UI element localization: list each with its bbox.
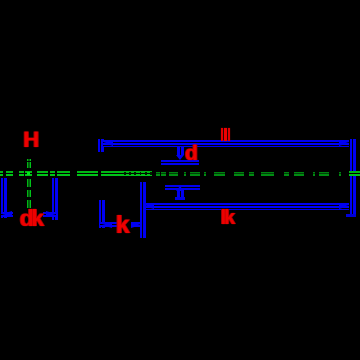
centerline horizontal dash 7 (57, 171, 70, 176)
label lk (221, 208, 233, 228)
centerline dash 9 ring hole 6 (150, 172, 152, 175)
centerline dash 9 ring hole 2 (129, 172, 131, 175)
centerline vertical dot at crossing (27, 179, 31, 187)
dimension ll: left extension line (98, 139, 104, 153)
centerline horizontal dash 5 (37, 171, 48, 176)
centerline horizontal dash 21 (284, 172, 289, 176)
dimension ll: right extension line (shared with lk) (350, 139, 356, 217)
centerline horizontal dash 15 (190, 172, 200, 176)
centerline horizontal dash 24 (319, 172, 329, 176)
centerline vertical dash 3 (27, 190, 31, 197)
centerline dash 9 ring hole 5 (145, 172, 147, 175)
dimension d: top extension line (161, 160, 199, 165)
centerline vertical dash 2 (27, 162, 31, 168)
dimension lk: left arrowhead (144, 203, 154, 209)
centerline horizontal dash 10 (156, 172, 160, 176)
dimension k: left extension line (99, 200, 105, 228)
dimension lk: dimension line band (145, 203, 349, 210)
centerline vertical dash 1 (27, 159, 31, 162)
centerline horizontal dash 2 (6, 171, 13, 176)
dimension d: upper arrow line (177, 147, 184, 155)
centerline horizontal dash 23 (313, 172, 315, 176)
dimension ll: right arrowhead (339, 140, 349, 146)
label ll stroke 2 (224, 128, 227, 142)
centerline horizontal dash 6 (50, 171, 55, 176)
centerline horizontal dash 22 (294, 172, 304, 176)
dimension k: right arrowhead (131, 222, 141, 228)
centerline horizontal dash 20 (261, 172, 274, 176)
dimension d: upper arrowhead (down) (176, 155, 184, 160)
dimension ll: left arrowhead (103, 140, 113, 146)
dimension dk: left arrowhead (2, 211, 12, 217)
dimension dk: dimension line left piece (1, 212, 13, 217)
centerline horizontal dash 12 (161, 172, 166, 176)
centerline horizontal dash 18 (234, 172, 244, 176)
label H (23, 129, 39, 151)
dimension d: lower arrowhead (up) (176, 186, 184, 191)
centerline horizontal dash 9 (101, 171, 152, 176)
centerline horizontal dash 4 (25, 171, 32, 176)
label k (116, 213, 130, 238)
centerline horizontal dash 17 (214, 172, 225, 176)
centerline horizontal dash 3 (19, 171, 24, 176)
dimension lk: left extension line (shared with k) (140, 182, 146, 238)
dimension d: bottom extension line (165, 185, 200, 190)
label dk (20, 207, 42, 230)
centerline horizontal dash 13 (169, 172, 178, 176)
dimension ll: right extension foot tick (346, 214, 356, 217)
dimension lk: right arrowhead (339, 203, 349, 209)
centerline vertical dash 4 (27, 200, 31, 208)
dimension k: dimension line left piece (100, 222, 117, 227)
centerline dash 9 ring hole 4 (140, 172, 142, 175)
dimension dk: left extension line (1, 178, 7, 218)
dimension ll: dimension line band (103, 140, 349, 147)
dimension dk: right extension line (52, 178, 58, 220)
dimension dk: right arrowhead (46, 211, 56, 217)
dimension k: dimension line right piece (131, 222, 140, 227)
centerline horizontal dash 16 (204, 172, 206, 176)
centerline horizontal dash 19 (249, 172, 254, 176)
dimension d: bottom end bar (175, 197, 185, 200)
centerline dash 9 ring hole 1 (124, 172, 126, 175)
centerline horizontal dash 14 (184, 172, 186, 176)
dimension k: left arrowhead (102, 222, 112, 228)
label ll stroke 1 (221, 128, 223, 142)
label ll stroke 3 (228, 128, 230, 142)
centerline horizontal dash 1 (0, 171, 3, 176)
centerline dash 9 ring hole 3 (134, 172, 136, 175)
centerline crossing bright dot (27, 172, 30, 175)
dimension d: lower arrow line (177, 189, 184, 197)
dimension dk: dimension line right piece (43, 212, 56, 217)
centerline horizontal dash 25 (339, 172, 341, 176)
label d (185, 143, 198, 164)
centerline horizontal dash 8 (77, 171, 98, 176)
centerline horizontal dash 26 bright end (349, 171, 360, 176)
